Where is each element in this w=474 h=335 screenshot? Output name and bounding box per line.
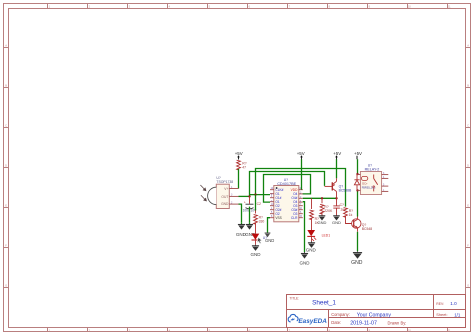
junction node 220K [321, 197, 323, 199]
transistor Q1 BC558B [325, 159, 352, 198]
svg-text:DC+: DC+ [362, 182, 368, 186]
svg-text:CLR: CLR [291, 216, 298, 220]
wire Q2 emitter to ground [357, 232, 359, 251]
junction node OUT/R2 [254, 193, 256, 195]
transistor Q2 BC548 [352, 217, 373, 232]
ground (LED1) [306, 241, 317, 252]
wire OUT up branch (line A to R5) [256, 169, 346, 207]
svg-text:+5V: +5V [297, 151, 305, 156]
IC U? CD4017BE [274, 178, 299, 222]
svg-text:VSS: VSS [275, 216, 281, 220]
svg-text:B: B [5, 83, 7, 87]
svg-text:+5V: +5V [354, 151, 362, 156]
svg-text:OUT: OUT [221, 195, 228, 199]
svg-text:D: D [5, 163, 7, 167]
ground (LED under R2) [251, 245, 262, 257]
svg-text:BC558B: BC558B [339, 189, 352, 193]
wire VSS to ground [268, 218, 271, 233]
ground (C2) [245, 223, 256, 237]
svg-text:Date:: Date: [331, 320, 341, 325]
EasyEDA logo [288, 314, 298, 321]
svg-text:Your Company: Your Company [357, 313, 392, 319]
ground (C3) [332, 216, 341, 225]
wire TSOP OUT node [239, 195, 250, 197]
wire R1 to V+ pin [238, 169, 240, 189]
IR arrows [200, 185, 206, 201]
U1 pin numbers [271, 188, 303, 218]
ground (O4 wire) [300, 252, 311, 265]
U1 left pin stubs [270, 190, 274, 218]
svg-text:Company:: Company: [331, 312, 350, 317]
svg-text:V+: V+ [224, 187, 228, 191]
svg-text:1/1: 1/1 [454, 312, 461, 317]
svg-text:GND: GND [300, 260, 311, 265]
resistor R1 47 [237, 160, 247, 170]
wire OUT up-left branch (to Q1 base line B) [250, 172, 325, 197]
svg-text:Sheet:: Sheet: [436, 312, 447, 317]
svg-text:47: 47 [242, 165, 246, 169]
svg-text:A: A [5, 43, 7, 47]
junction node OUT/C2 [248, 195, 250, 197]
U1 right pin names [291, 188, 298, 220]
resistor R4 1K (to LED1) [310, 198, 320, 230]
svg-text:D: D [467, 163, 469, 167]
ground (U1 VSS) [263, 233, 274, 243]
power flag +5V (relay coil) [354, 151, 362, 159]
svg-text:GND: GND [221, 202, 229, 206]
title block [287, 295, 466, 328]
U1 left pin names [275, 188, 283, 220]
IR receiver U? TSOP1738 [208, 176, 239, 208]
resistor R5 1k (base of Q2) [344, 208, 354, 224]
wire TSOP GND pin to ground [239, 204, 242, 223]
svg-text:BC548: BC548 [362, 227, 372, 231]
node wire Q1 collector / clock [303, 197, 337, 199]
svg-text:Sheet_1: Sheet_1 [312, 300, 336, 307]
junction relay pin 2 [356, 189, 358, 191]
capacitor C2 100u 10V [243, 196, 261, 222]
svg-text:+5V: +5V [333, 151, 341, 156]
ground (Q2 emitter) [351, 251, 363, 266]
svg-text:GND: GND [351, 260, 363, 266]
svg-text:G: G [467, 283, 469, 287]
wire OUT node jog to U1 CLK [250, 194, 271, 196]
power flag +5V (VDD of U1) [297, 151, 305, 159]
svg-text:1u: 1u [340, 208, 344, 212]
svg-text:330: 330 [259, 219, 265, 223]
diode D1 flyback [354, 174, 359, 190]
capacitor C3 1u [333, 198, 344, 216]
svg-text:TSOP1738: TSOP1738 [216, 180, 233, 184]
svg-text:REV:: REV: [436, 302, 444, 306]
svg-text:220K: 220K [324, 209, 333, 213]
svg-text:GND: GND [332, 220, 341, 225]
U1 right pin stubs [299, 190, 303, 218]
wire U1 reset feedback (line C) [264, 175, 311, 203]
svg-text:GND: GND [306, 247, 317, 252]
junction node C3 [335, 197, 337, 199]
wire +5V to relay coil [357, 159, 359, 174]
power flag +5V (emitter of Q1) [333, 151, 341, 159]
svg-text:C2: C2 [257, 202, 261, 206]
svg-text:A: A [467, 43, 469, 47]
resistor R2 330 [254, 195, 265, 234]
svg-text:1.0: 1.0 [450, 301, 457, 306]
svg-text:TITLE:: TITLE: [290, 297, 300, 301]
wire VDD to +5V [301, 159, 303, 190]
svg-text:B: B [467, 83, 469, 87]
svg-text:G: G [5, 283, 7, 287]
svg-text:E: E [467, 203, 469, 207]
svg-text:1k: 1k [349, 213, 353, 217]
junction relay pin 1 [356, 173, 358, 175]
svg-text:U?: U? [263, 236, 267, 240]
LED LED1 [307, 230, 330, 241]
svg-text:EasyEDA: EasyEDA [298, 318, 327, 325]
wire relay coil to Q2 collector [357, 190, 359, 216]
svg-text:C?: C? [340, 203, 344, 207]
svg-text:+5V: +5V [235, 151, 243, 156]
svg-text:LED1: LED1 [322, 234, 331, 238]
wire U1 O4 output down to ground [303, 202, 305, 252]
resistor R3 220K [320, 198, 333, 216]
svg-text:2019-11-07: 2019-11-07 [350, 321, 377, 327]
LED D? (lower, under R2) [252, 234, 260, 245]
mouse cursor [257, 237, 262, 244]
svg-text:C: C [5, 123, 7, 127]
svg-text:C: C [467, 123, 469, 127]
ground (R3) [318, 216, 327, 225]
ground (TSOP) [236, 223, 247, 237]
svg-text:E: E [5, 203, 7, 207]
svg-text:GND: GND [318, 220, 327, 225]
relay U? RELAY-2 [358, 164, 389, 195]
svg-text:Drawn By:: Drawn By: [388, 320, 407, 325]
power flag +5V (above R1) [235, 151, 243, 159]
svg-text:GND: GND [251, 252, 262, 257]
